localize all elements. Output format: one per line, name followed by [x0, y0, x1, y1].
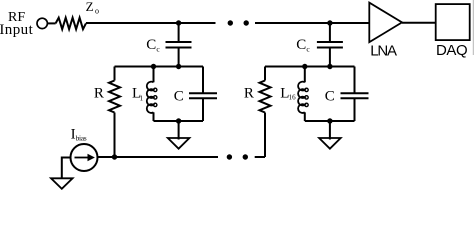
- junction dot tank2 top bar at Cc2: [327, 64, 332, 69]
- capacitor Cc (tank 1): [166, 42, 192, 48]
- junction dot top rail at Cc1: [176, 20, 181, 25]
- junction dot top rail at Cc2: [327, 20, 332, 25]
- svg-text:LNA: LNA: [370, 43, 397, 60]
- junction dot tank2 top bar at L16: [302, 64, 307, 69]
- wire tank1 L lower stub: [153, 112, 155, 121]
- wire top rail left segment: [86, 22, 216, 24]
- resistor Zo: [56, 18, 86, 30]
- wire Cc2 lower stub: [329, 48, 331, 67]
- wire top rail right segment: [255, 22, 369, 24]
- wire Cc1 upper stub: [178, 23, 180, 42]
- wire tank1 bottom bar: [154, 120, 204, 122]
- port P1 RF input terminal: [37, 18, 47, 28]
- svg-text:DAQ: DAQ: [436, 42, 467, 59]
- wire tank2 bottom bar: [305, 120, 355, 122]
- block DAQ: [436, 4, 470, 40]
- junction dot tank1 top bar at L1: [151, 64, 156, 69]
- wire Cc2 upper stub: [329, 23, 331, 42]
- capacitor C (tank 2): [341, 93, 369, 98]
- junction dot tank1 bottom bar: [176, 118, 181, 123]
- wire tank1 ground stub: [178, 121, 180, 140]
- wire tank2 R lower stub: [264, 113, 266, 158]
- wire Ibias left stub: [62, 158, 71, 179]
- wire port to resistor: [48, 22, 56, 24]
- svg-text:C: C: [325, 88, 335, 104]
- wire tank1 top bar: [115, 66, 204, 68]
- wire tank2 R upper stub: [264, 67, 266, 81]
- label RF Input: [0, 10, 34, 38]
- junction dot tank1 top bar at Cc1: [176, 64, 181, 69]
- resistor R (tank 2): [260, 81, 271, 113]
- wire tank2 C lower stub: [354, 98, 356, 121]
- resistor R (tank 1): [109, 81, 120, 113]
- edge artifact line: [472, 0, 474, 55]
- svg-text:Input: Input: [0, 22, 34, 38]
- current source Ibias: [71, 144, 98, 171]
- wire tank1 R lower stub: [114, 113, 116, 158]
- wire bottom rail right segment: [255, 156, 265, 158]
- svg-text:R: R: [244, 85, 254, 101]
- wire tank2 C upper stub: [354, 67, 356, 94]
- node ellipsis dots top rail: [228, 20, 233, 25]
- wire tank2 L lower stub: [304, 112, 306, 121]
- ground (Ibias): [51, 178, 73, 189]
- junction dot tank2 bottom bar: [327, 118, 332, 123]
- ground (tank 2): [319, 138, 341, 149]
- svg-text:R: R: [94, 85, 104, 101]
- wire tank1 C lower stub: [202, 98, 204, 121]
- capacitor C (tank 1): [189, 93, 217, 98]
- wire tank2 ground stub: [329, 121, 331, 140]
- wire tank1 L upper stub: [153, 67, 155, 83]
- inductor L1: [147, 82, 157, 113]
- inductor L16: [298, 82, 308, 113]
- ground (tank 1): [168, 138, 190, 149]
- op-amp LNA amplifier triangle: [369, 3, 402, 43]
- wire tank1 R upper stub: [114, 67, 116, 81]
- wire Cc1 lower stub: [178, 48, 180, 67]
- capacitor Cc (tank 2): [317, 42, 343, 48]
- svg-text:C: C: [174, 88, 184, 104]
- wire LNA to DAQ: [402, 22, 435, 24]
- wire tank2 top bar: [265, 66, 355, 68]
- wire bottom rail left segment: [98, 156, 219, 158]
- junction dot bottom rail at R1: [112, 154, 117, 159]
- wire tank2 L upper stub: [304, 67, 306, 83]
- node ellipsis dots bottom rail: [227, 154, 232, 159]
- wire tank1 C upper stub: [202, 67, 204, 94]
